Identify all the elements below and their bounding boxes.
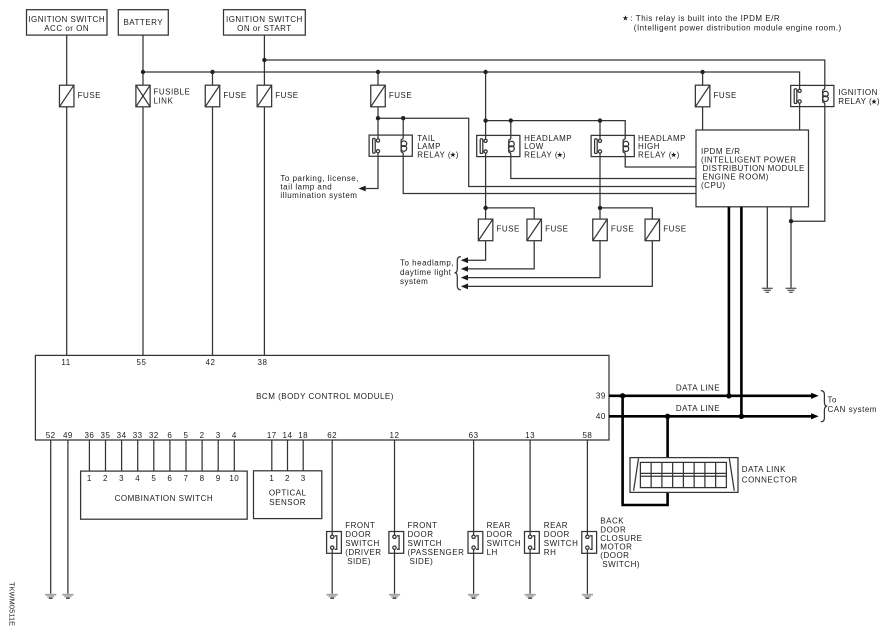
arrow headlamp 2 xyxy=(461,266,468,272)
svg-text:SWITCH: SWITCH xyxy=(408,539,443,548)
junction fuse A/B branch xyxy=(483,206,487,210)
wire ignition relay contact to IPDM xyxy=(799,107,801,130)
fuse B xyxy=(527,219,568,241)
wire BCM 3 to combination switch 9 xyxy=(217,440,219,471)
svg-text:ON or START: ON or START xyxy=(237,24,292,33)
wire low relay coil to IPDM xyxy=(511,157,696,179)
svg-text:3: 3 xyxy=(119,474,124,483)
svg-text:To headlamp,: To headlamp, xyxy=(400,259,454,268)
wire tail relay contact to parking arrow xyxy=(366,156,378,188)
optical sensor box xyxy=(254,471,322,519)
wire BCM 14 to optical sensor 2 xyxy=(287,440,289,471)
data link connector xyxy=(630,458,798,493)
wire high relay contact to fuse C xyxy=(599,157,601,220)
rear door switch LH xyxy=(468,521,521,557)
svg-text:FUSE: FUSE xyxy=(611,225,634,234)
svg-text:system: system xyxy=(400,277,428,286)
svg-text:IGNITION SWITCH: IGNITION SWITCH xyxy=(28,15,105,24)
wire BCM 17 to optical sensor 1 xyxy=(271,440,273,471)
wire BCM 18 to optical sensor 3 xyxy=(302,440,304,471)
svg-text:RH: RH xyxy=(544,548,557,557)
wire bus line2 battery rail to ignition relay contact xyxy=(143,72,800,85)
wire fuse D to headlamp arrow 4 xyxy=(468,241,652,287)
svg-text:FUSIBLE: FUSIBLE xyxy=(154,87,191,96)
svg-text:3: 3 xyxy=(301,474,306,483)
svg-text:(PASSENGER: (PASSENGER xyxy=(408,548,465,557)
power source box: BATTERY xyxy=(118,10,168,35)
svg-text:RELAY (: RELAY ( xyxy=(417,150,451,159)
IPDM E/R box xyxy=(696,130,809,207)
svg-text:TKWM0511E: TKWM0511E xyxy=(8,582,17,626)
svg-text:REAR: REAR xyxy=(487,521,511,530)
svg-text:SWITCH: SWITCH xyxy=(544,539,579,548)
fuse F5 xyxy=(371,85,412,107)
svg-text:3: 3 xyxy=(216,431,221,440)
svg-text:DOOR: DOOR xyxy=(600,526,626,535)
svg-text:52: 52 xyxy=(46,431,56,440)
svg-text:42: 42 xyxy=(206,358,216,367)
svg-text:LINK: LINK xyxy=(154,97,174,106)
front door switch driver xyxy=(327,521,382,566)
svg-text:FUSE: FUSE xyxy=(663,225,686,234)
svg-text:FUSE: FUSE xyxy=(545,225,568,234)
arrow data line 40 xyxy=(811,413,819,419)
wire fuse A to headlamp arrow 1 xyxy=(468,241,486,261)
junction low relay contact feed xyxy=(483,118,487,122)
wire LH switch to ground xyxy=(473,553,475,594)
wire BCM 34 to combination switch 3 xyxy=(121,440,123,471)
junction dot CAN1 xyxy=(726,393,731,398)
svg-text:SWITCH): SWITCH) xyxy=(602,560,640,569)
ground IPDM 2 xyxy=(786,288,797,292)
wire BCM 63 to rear door switch LH xyxy=(473,440,475,532)
back door closure motor switch xyxy=(582,516,643,569)
wire tail relay feed node to IPDM CPU xyxy=(378,118,696,186)
BCM box xyxy=(35,355,609,440)
ground IPDM 1 xyxy=(762,288,773,292)
svg-text:REAR: REAR xyxy=(544,521,568,530)
svg-text:): ) xyxy=(563,150,566,159)
svg-text:7: 7 xyxy=(184,474,189,483)
svg-text:36: 36 xyxy=(84,431,94,440)
svg-text:5: 5 xyxy=(184,431,189,440)
ground BCM 52 xyxy=(45,594,56,599)
wire branch to fuse B xyxy=(486,208,535,219)
wire BCM 58 to back door closure motor xyxy=(586,440,588,532)
svg-text:58: 58 xyxy=(582,431,592,440)
svg-text:4: 4 xyxy=(232,431,237,440)
svg-text:13: 13 xyxy=(525,431,535,440)
svg-text:34: 34 xyxy=(117,431,127,440)
svg-text:): ) xyxy=(456,150,459,159)
wire fuse3 to BCM pin 42 xyxy=(212,107,214,356)
wire BCM 36 to combination switch 1 xyxy=(88,440,90,471)
label to headlamp daytime light system xyxy=(400,259,454,286)
ground driver switch xyxy=(327,594,338,599)
svg-text:): ) xyxy=(677,150,680,159)
junction battery rail at fuse3 xyxy=(210,70,214,74)
svg-text:12: 12 xyxy=(390,431,400,440)
svg-text:2: 2 xyxy=(200,431,205,440)
svg-text:8: 8 xyxy=(200,474,205,483)
note: relay built into IPDM E/R xyxy=(623,14,842,32)
svg-text:FUSE: FUSE xyxy=(223,91,246,100)
junction fuse C/D branch xyxy=(598,206,602,210)
tail lamp relay xyxy=(369,134,459,159)
wire fuse1 to BCM pin 11 xyxy=(66,107,68,356)
wire BCM 2 to combination switch 8 xyxy=(201,440,203,471)
wire fuse C to headlamp arrow 3 xyxy=(468,241,600,278)
wire BCM 5 to combination switch 7 xyxy=(185,440,187,471)
ground passenger switch xyxy=(389,594,400,599)
wire low relay contact to fuse A xyxy=(485,157,487,220)
svg-text:1: 1 xyxy=(87,474,92,483)
svg-text:49: 49 xyxy=(63,431,73,440)
svg-text:(Intelligent power distributio: (Intelligent power distribution module e… xyxy=(634,23,842,32)
svg-text:To parking, license,: To parking, license, xyxy=(280,174,358,183)
wire bus line1 ON/START rail to ignition relay coil xyxy=(264,60,824,85)
wire IPDM ground 2 xyxy=(790,207,792,288)
svg-text:BACK: BACK xyxy=(600,516,624,525)
junction dot CAN2 xyxy=(739,414,744,419)
fuse F6 xyxy=(695,85,736,107)
svg-text:DATA LINE: DATA LINE xyxy=(676,404,720,413)
svg-text:18: 18 xyxy=(298,431,308,440)
svg-text:OPTICAL: OPTICAL xyxy=(269,488,307,497)
fuse F4 xyxy=(257,85,298,107)
fuse C xyxy=(593,219,634,241)
wire BCM 6 to combination switch 6 xyxy=(169,440,171,471)
junction low relay coil feed xyxy=(509,118,513,122)
svg-text:1: 1 xyxy=(269,474,274,483)
svg-text:IGNITION: IGNITION xyxy=(838,88,878,97)
wire bus to headlamp relays feed xyxy=(485,72,487,135)
fuse F1 xyxy=(59,85,100,107)
fuse F3 xyxy=(205,85,246,107)
svg-text:33: 33 xyxy=(133,431,143,440)
svg-text:14: 14 xyxy=(283,431,293,440)
svg-text:9: 9 xyxy=(216,474,221,483)
wire node to tail relay contact xyxy=(377,118,379,135)
wire BCM 32 to combination switch 5 xyxy=(153,440,155,471)
data line 40 xyxy=(609,415,812,418)
wire branch to fuse D xyxy=(600,208,652,219)
svg-text:4: 4 xyxy=(135,474,140,483)
svg-text:39: 39 xyxy=(596,391,606,400)
wire BCM 49 to ground xyxy=(67,440,69,594)
svg-text:DATA LINK: DATA LINK xyxy=(742,465,786,474)
wire node to tail relay coil xyxy=(402,118,404,135)
junction tail relay coil feed xyxy=(401,116,405,120)
junction tail relay contact feed xyxy=(376,116,380,120)
wire bus to fuse5 xyxy=(377,72,379,85)
junction dot 40 branch xyxy=(665,414,670,419)
wire passenger switch to ground xyxy=(394,553,396,594)
wire ignition relay coil to ground link xyxy=(791,107,825,222)
svg-text:RELAY (: RELAY ( xyxy=(838,97,872,106)
ground LH switch xyxy=(468,594,479,599)
headlamp high relay xyxy=(591,134,686,160)
svg-text:: This relay is built into the: : This relay is built into the IPDM E/R xyxy=(631,14,781,23)
combination switch box xyxy=(81,471,248,519)
wire battery to fusible link xyxy=(142,35,144,85)
svg-text:5: 5 xyxy=(151,474,156,483)
wire driver switch to ground xyxy=(331,553,333,594)
wire IPDM ground 1 xyxy=(766,207,768,288)
wire BCM 4 to combination switch 10 xyxy=(233,440,235,471)
wire BCM 33 to combination switch 4 xyxy=(137,440,139,471)
rear door switch RH xyxy=(525,521,579,557)
wire BCM 62 to front door switch driver xyxy=(331,440,333,532)
wire tail relay coil to IPDM xyxy=(403,156,696,193)
svg-text:(CPU): (CPU) xyxy=(701,181,726,190)
svg-text:BATTERY: BATTERY xyxy=(123,18,163,27)
svg-text:63: 63 xyxy=(469,431,479,440)
svg-text:daytime light: daytime light xyxy=(400,268,452,277)
brace headlamp group xyxy=(455,257,461,290)
svg-text:LH: LH xyxy=(487,548,498,557)
svg-text:SWITCH: SWITCH xyxy=(487,539,522,548)
svg-text:ACC or ON: ACC or ON xyxy=(44,24,89,33)
junction ignition relay coil ground xyxy=(789,219,793,223)
svg-text:2: 2 xyxy=(285,474,290,483)
thick wire 39 branch to DLC bottom xyxy=(623,396,668,505)
arrow headlamp 1 xyxy=(461,257,468,263)
svg-text:2: 2 xyxy=(103,474,108,483)
svg-text:SWITCH: SWITCH xyxy=(345,539,380,548)
junction dot 39 branch xyxy=(620,393,625,398)
wire headlamp relay feed line xyxy=(486,121,626,136)
svg-text:SENSOR: SENSOR xyxy=(269,498,306,507)
svg-text:FRONT: FRONT xyxy=(408,521,438,530)
CAN thick wire IPDM to data line 40 xyxy=(740,207,743,416)
arrow headlamp 3 xyxy=(461,275,468,281)
wire BCM 52 to ground xyxy=(50,440,52,594)
power source box: IGNITION SWITCH ACC or ON xyxy=(27,10,108,35)
wire ignition ON/START down to fuse4 xyxy=(263,35,265,85)
junction high relay contact feed xyxy=(598,118,602,122)
wire high relay coil to IPDM xyxy=(625,157,696,167)
svg-text:CAN system: CAN system xyxy=(828,405,877,414)
wire fuse5 to tail relay node xyxy=(377,107,379,118)
wire BCM 35 to combination switch 2 xyxy=(105,440,107,471)
junction battery rail at fuse5 xyxy=(376,70,380,74)
svg-text:10: 10 xyxy=(229,474,239,483)
wire RH switch to ground xyxy=(529,553,531,594)
svg-text:COMBINATION SWITCH: COMBINATION SWITCH xyxy=(115,494,214,503)
wire BCM 13 to rear door switch RH xyxy=(529,440,531,532)
CAN thick wire IPDM to data line 39 xyxy=(728,207,731,396)
junction battery rail at battery feed xyxy=(141,70,145,74)
wire fuse6 to IPDM E/R xyxy=(702,107,704,130)
svg-text:FUSE: FUSE xyxy=(497,225,520,234)
wire bus to fuse3 xyxy=(212,72,214,85)
junction battery rail at headlamp relay feed xyxy=(483,70,487,74)
arrow to parking system xyxy=(359,186,366,192)
svg-text:SIDE): SIDE) xyxy=(347,557,371,566)
svg-text:40: 40 xyxy=(596,412,606,421)
fusible link xyxy=(136,85,190,107)
label to CAN system xyxy=(828,396,877,415)
svg-text:DATA LINE: DATA LINE xyxy=(676,383,720,392)
svg-text:35: 35 xyxy=(101,431,111,440)
wire feed to high relay contact xyxy=(599,121,601,136)
svg-text:CONNECTOR: CONNECTOR xyxy=(742,475,798,484)
svg-text:55: 55 xyxy=(137,358,147,367)
ground back door switch xyxy=(582,594,593,599)
junction ON/START rail xyxy=(262,58,266,62)
svg-text:17: 17 xyxy=(267,431,277,440)
svg-text:6: 6 xyxy=(167,431,172,440)
power source box: IGNITION SWITCH ON or START xyxy=(224,10,306,35)
svg-text:SIDE): SIDE) xyxy=(410,557,434,566)
junction battery rail at fuse6 xyxy=(700,70,704,74)
fuse A xyxy=(478,219,519,241)
svg-text:DOOR: DOOR xyxy=(345,530,371,539)
svg-text:DOOR: DOOR xyxy=(487,530,513,539)
svg-text:FRONT: FRONT xyxy=(345,521,375,530)
headlamp low relay xyxy=(477,134,572,160)
thick wire 40 branch to DLC top xyxy=(666,416,669,462)
svg-text:11: 11 xyxy=(61,358,70,367)
svg-text:(DOOR: (DOOR xyxy=(600,551,629,560)
arrow data line 39 xyxy=(811,393,819,399)
svg-text:32: 32 xyxy=(149,431,159,440)
svg-text:DOOR: DOOR xyxy=(544,530,570,539)
svg-text:6: 6 xyxy=(167,474,172,483)
front door switch passenger xyxy=(389,521,464,566)
svg-text:IGNITION SWITCH: IGNITION SWITCH xyxy=(226,15,303,24)
wire feed to low relay coil xyxy=(510,121,512,136)
svg-text:RELAY (: RELAY ( xyxy=(638,150,672,159)
ignition relay xyxy=(791,85,880,106)
svg-text:DOOR: DOOR xyxy=(408,530,434,539)
ground RH switch xyxy=(525,594,536,599)
svg-text:FUSE: FUSE xyxy=(275,91,298,100)
ground BCM 49 xyxy=(62,594,73,599)
wire back door switch to ground xyxy=(586,553,588,594)
wire fuse4 to BCM pin 38 xyxy=(263,107,265,356)
svg-text:illumination system: illumination system xyxy=(280,191,357,200)
data line 39 xyxy=(609,394,812,397)
svg-text:RELAY (: RELAY ( xyxy=(524,150,558,159)
wire ACC feed to fuse xyxy=(66,35,68,85)
svg-text:To: To xyxy=(828,396,838,405)
wire fusible link to BCM pin 55 xyxy=(142,107,144,356)
wire fuse B to headlamp arrow 2 xyxy=(468,241,534,269)
svg-text:(DRIVER: (DRIVER xyxy=(345,548,381,557)
arrow headlamp 4 xyxy=(461,284,468,290)
svg-text:62: 62 xyxy=(327,431,337,440)
svg-text:FUSE: FUSE xyxy=(78,91,101,100)
label to parking license tail lamp xyxy=(280,174,358,200)
svg-text:BCM (BODY CONTROL MODULE): BCM (BODY CONTROL MODULE) xyxy=(256,392,394,401)
brace CAN system xyxy=(821,391,827,422)
wire bus to fuse6 xyxy=(702,72,704,85)
wire BCM 12 to front door switch passenger xyxy=(394,440,396,532)
svg-text:FUSE: FUSE xyxy=(714,91,737,100)
fuse D xyxy=(645,219,686,241)
svg-text:38: 38 xyxy=(258,358,268,367)
svg-text:): ) xyxy=(877,97,880,106)
svg-text:FUSE: FUSE xyxy=(389,91,412,100)
